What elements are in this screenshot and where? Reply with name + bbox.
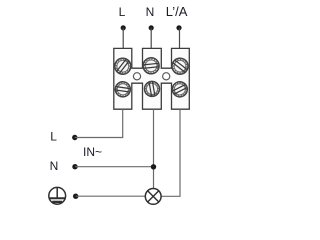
wire terminal 2 to lamp top — [153, 109, 155, 188]
svg-text:IN~: IN~ — [83, 145, 102, 159]
svg-text:L: L — [50, 130, 57, 144]
node L'/A (output terminal dot) — [176, 25, 181, 30]
wire L'/A node to block top — [179, 28, 181, 49]
wire L node to block top — [122, 28, 124, 49]
wire L input to terminal 1 — [75, 109, 123, 137]
screw terminal 1 top (L) — [112, 55, 134, 77]
mounting hole right — [163, 73, 170, 80]
junction N / lamp — [151, 164, 156, 169]
node earth (wire start dot) — [73, 194, 78, 199]
svg-text:L’/A: L’/A — [166, 4, 188, 19]
terminal block X1 (comb-shaped body) — [114, 48, 190, 109]
lamp E1 — [145, 189, 161, 205]
wire N input to junction — [75, 166, 154, 168]
node N (input wire start dot) — [72, 164, 77, 169]
wire terminal 3 to lamp right — [161, 109, 180, 196]
svg-text:L: L — [119, 5, 126, 19]
node L (input terminal dot) — [121, 25, 126, 30]
svg-text:N: N — [146, 5, 155, 19]
screw terminal 1 bottom (L) — [114, 81, 131, 98]
svg-text:N: N — [50, 159, 59, 173]
protective earth symbol — [49, 187, 66, 204]
screw terminal 3 bottom (L'/A) — [170, 79, 190, 99]
mounting hole left — [133, 73, 140, 80]
screw terminal 2 top (N) — [142, 57, 160, 75]
node N (input terminal dot) — [149, 25, 154, 30]
node L (input wire start dot) — [72, 135, 77, 140]
wire N node to block top — [150, 28, 152, 49]
screw terminal 3 top (L'/A) — [169, 55, 191, 77]
wire earth to lamp left — [76, 195, 146, 197]
screw terminal 2 bottom (N) — [143, 80, 160, 97]
